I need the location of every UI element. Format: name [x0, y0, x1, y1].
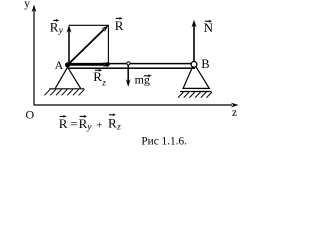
vector R (diagonal) — [68, 25, 109, 64]
svg-text:N: N — [204, 20, 214, 35]
equation R = Ry + Rz — [59, 113, 121, 132]
y axis — [32, 5, 37, 106]
node B pin circle — [191, 62, 197, 68]
support A ground line — [49, 88, 84, 90]
equation term Rz — [109, 114, 114, 116]
load application point on beam — [127, 62, 130, 65]
svg-text:y: y — [58, 26, 64, 36]
support B ground hatching — [178, 92, 212, 98]
svg-text:A: A — [55, 58, 64, 72]
vector mg label — [135, 73, 152, 87]
svg-text:R: R — [50, 19, 59, 34]
svg-text:R: R — [93, 69, 102, 84]
vector Ry label — [50, 19, 64, 36]
support B triangle — [183, 67, 209, 89]
svg-text:R: R — [59, 116, 68, 131]
vector N — [192, 20, 197, 62]
svg-text:mg: mg — [135, 73, 150, 87]
vector Rz — [68, 62, 111, 67]
svg-text:+: + — [96, 119, 102, 131]
support A ground hatching — [45, 89, 85, 95]
svg-text:R: R — [115, 18, 124, 33]
svg-text:y: y — [24, 0, 30, 10]
svg-text:R: R — [108, 115, 117, 130]
parallelogram construction lines — [69, 25, 108, 64]
svg-text:z: z — [116, 123, 121, 133]
node at parallelogram corner (Rz tip) — [105, 62, 110, 67]
support A triangle — [55, 67, 80, 88]
z axis — [34, 103, 239, 108]
vector mg — [126, 65, 131, 87]
svg-text:B: B — [201, 57, 209, 71]
vector Ry — [67, 25, 72, 64]
svg-text:z: z — [232, 107, 237, 119]
node A dot — [65, 62, 70, 67]
svg-text:Рис 1.1.6.: Рис 1.1.6. — [141, 135, 187, 147]
equation term Ry — [80, 115, 85, 117]
vector N label — [204, 20, 214, 35]
svg-text:y: y — [86, 122, 92, 132]
svg-text:O: O — [26, 107, 35, 121]
svg-text:z: z — [101, 78, 106, 88]
vector Rz label — [93, 69, 106, 89]
svg-text:=: = — [70, 116, 77, 131]
support B ground line — [180, 91, 211, 93]
vector R label — [115, 17, 124, 33]
beam — [68, 64, 195, 69]
equation term R — [60, 115, 65, 117]
